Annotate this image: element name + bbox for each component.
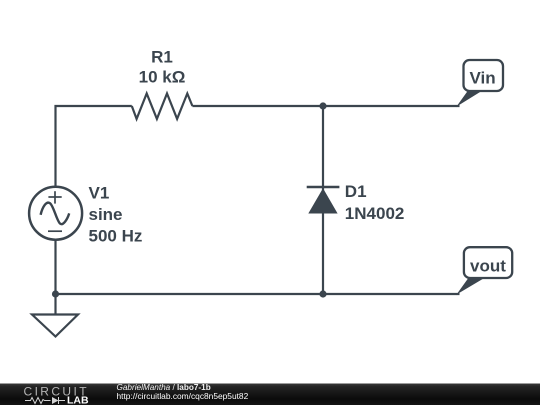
svg-text:vout: vout xyxy=(470,257,506,276)
svg-text:1N4002: 1N4002 xyxy=(345,204,405,223)
svg-text:LAB: LAB xyxy=(67,394,89,405)
svg-text:D1: D1 xyxy=(345,182,367,201)
svg-text:500 Hz: 500 Hz xyxy=(89,226,143,245)
svg-text:V1: V1 xyxy=(89,183,110,202)
svg-text:sine: sine xyxy=(89,205,123,224)
svg-text:R1: R1 xyxy=(151,48,173,67)
svg-text:http://circuitlab.com/cqc8n5ep: http://circuitlab.com/cqc8n5ep5ut82 xyxy=(117,391,249,401)
svg-text:Vin: Vin xyxy=(470,68,496,87)
svg-text:10 kΩ: 10 kΩ xyxy=(139,68,186,87)
